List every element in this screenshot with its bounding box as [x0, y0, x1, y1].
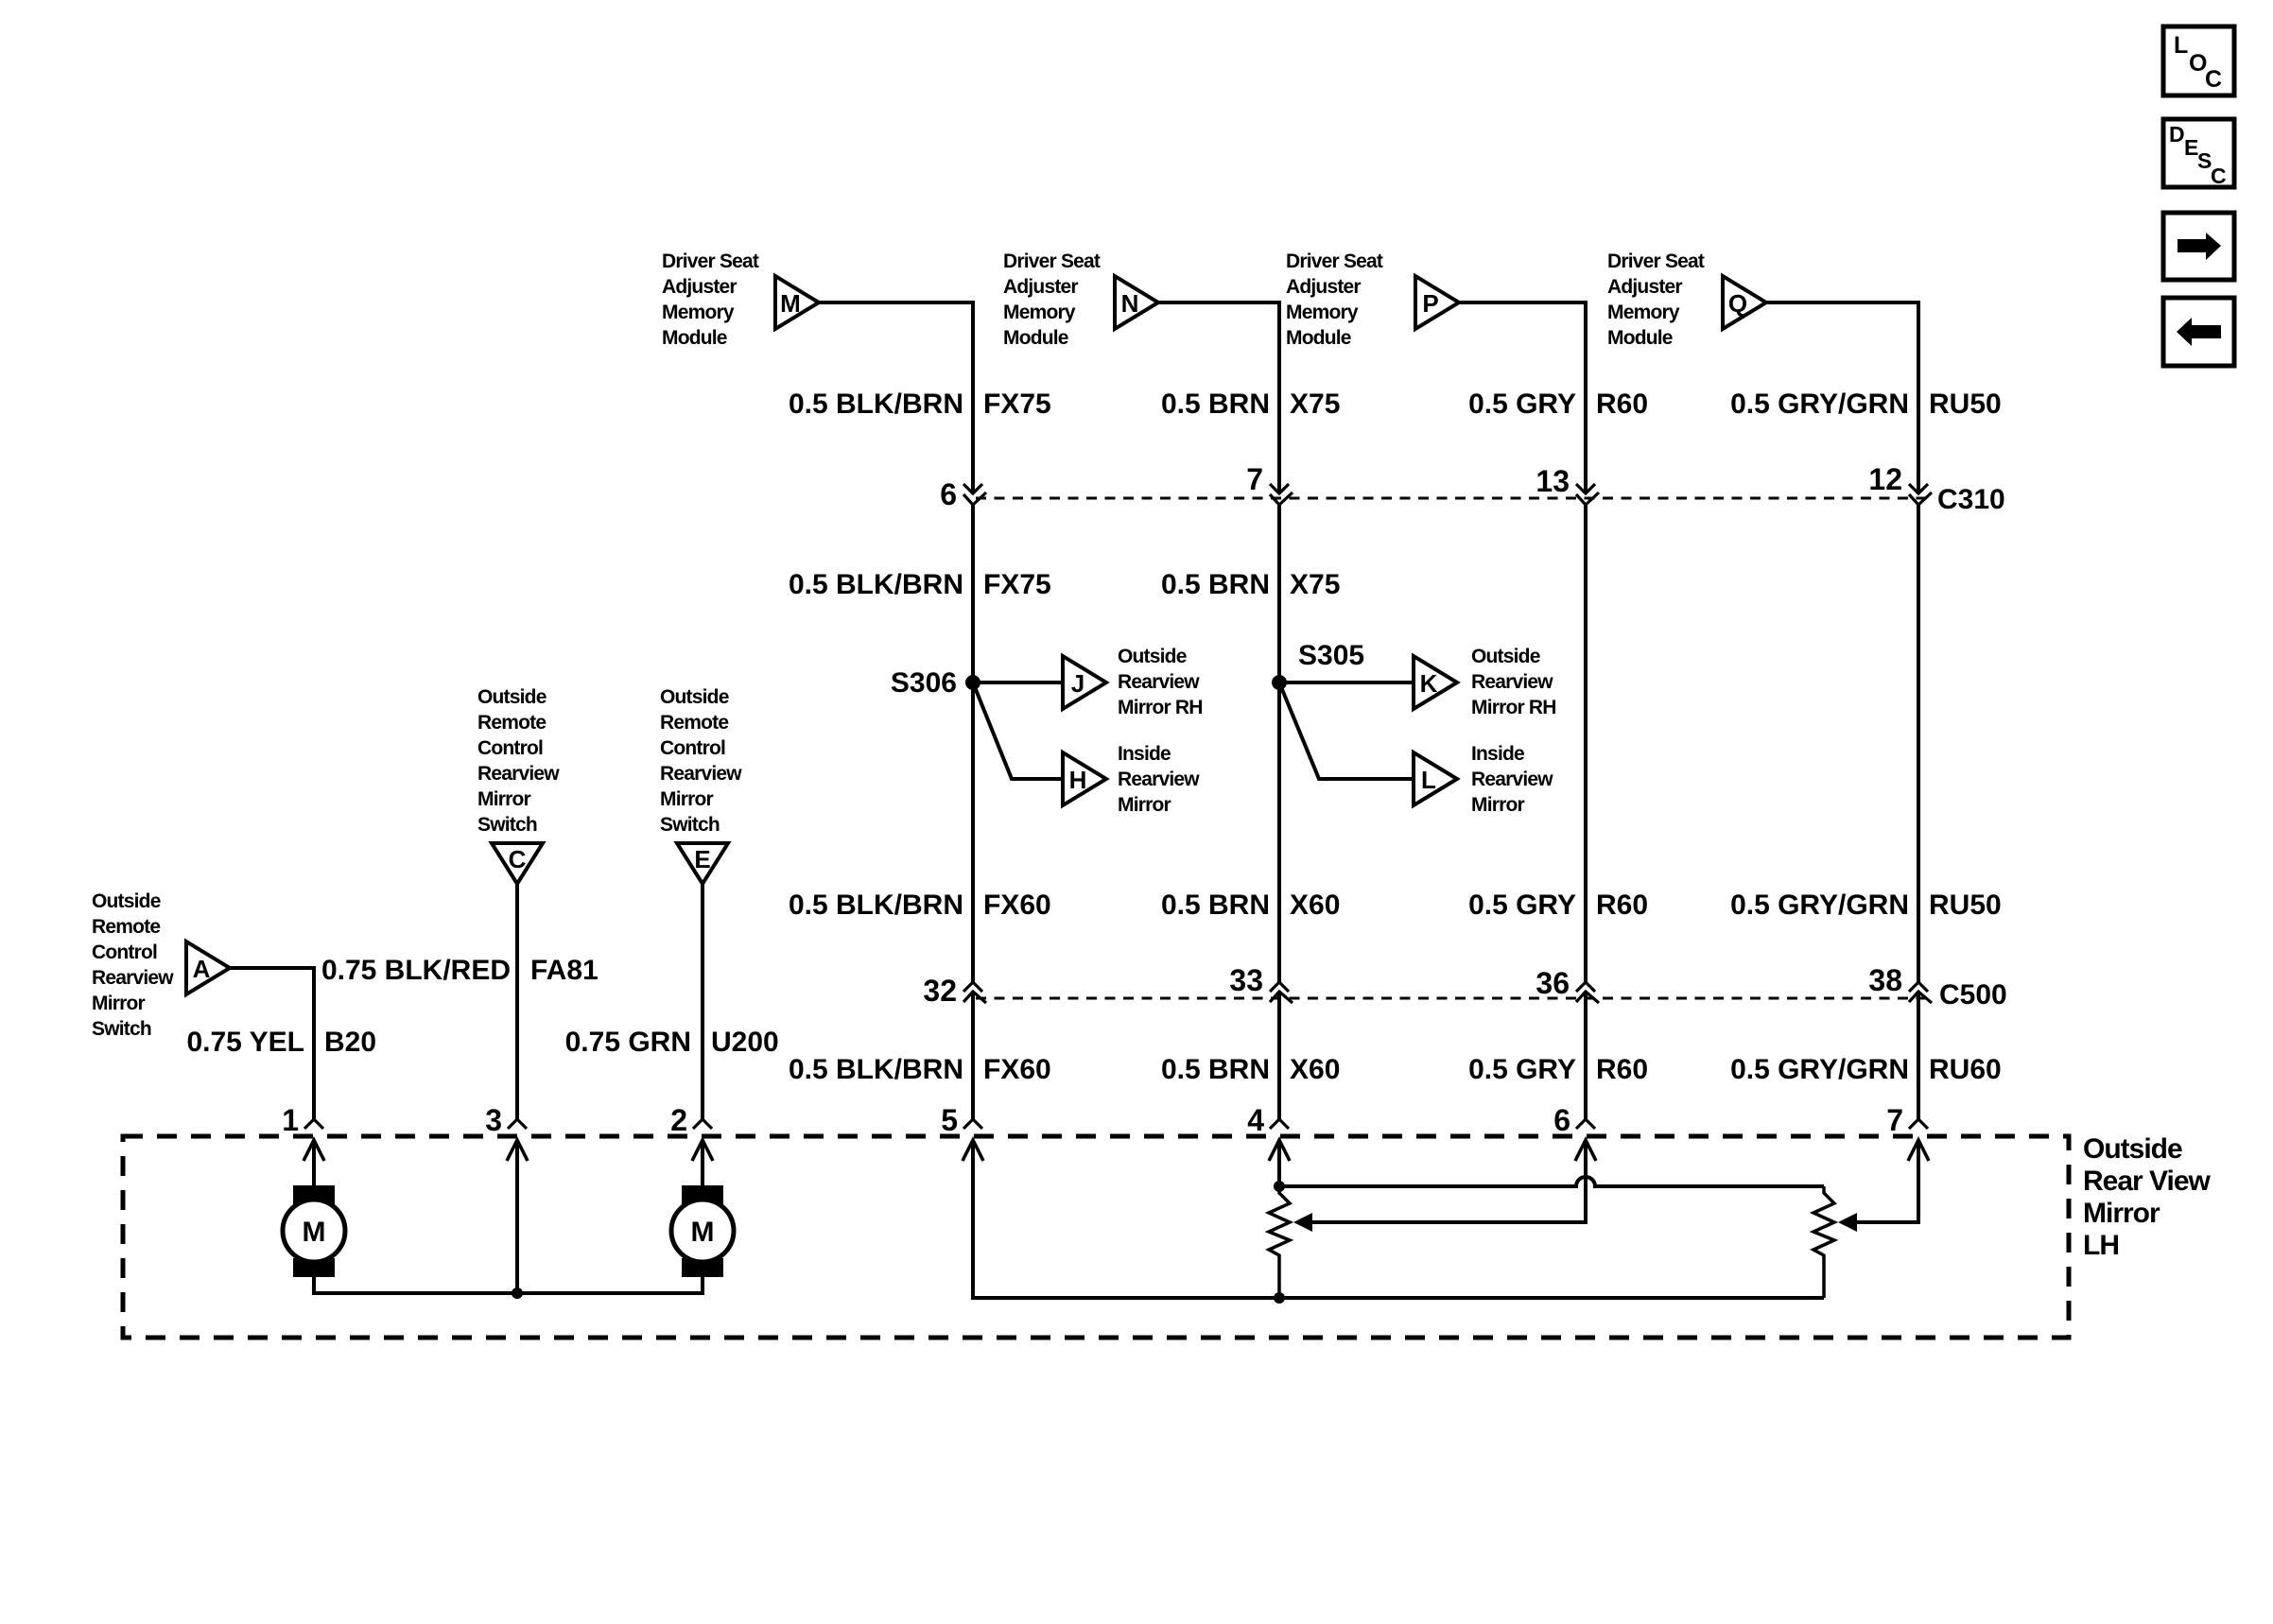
svg-text:P: P	[1422, 289, 1438, 318]
svg-text:13: 13	[1536, 464, 1570, 498]
svg-text:C: C	[2211, 164, 2227, 188]
svg-text:R60: R60	[1596, 389, 1648, 420]
wire R60 C500 to pin6	[1584, 992, 1588, 1119]
junction node pot R1 top	[1274, 1181, 1285, 1192]
svg-text:H: H	[1069, 766, 1087, 794]
svg-text:InsideRearviewMirror: InsideRearviewMirror	[1118, 743, 1200, 816]
svg-text:6: 6	[1553, 1103, 1570, 1137]
connector triangle H	[1063, 752, 1106, 805]
wire pot R1 top to pot R2 top (hop over pin6 wire)	[1279, 1177, 1824, 1186]
wire P to column R60	[1459, 302, 1586, 492]
svg-text:4: 4	[1247, 1103, 1264, 1137]
wire E to pin2	[701, 884, 704, 1119]
wire pin4 to pot R1 top	[1277, 1140, 1281, 1186]
svg-text:M: M	[691, 1217, 715, 1248]
connector triangle J	[1063, 656, 1106, 709]
svg-text:0.5 BLK/BRN: 0.5 BLK/BRN	[789, 1054, 963, 1085]
svg-text:OutsideRemoteControlRearviewMi: OutsideRemoteControlRearviewMirrorSwitch	[92, 890, 174, 1040]
wire S305 to L	[1279, 682, 1414, 779]
svg-text:0.5 BRN: 0.5 BRN	[1161, 890, 1270, 921]
svg-text:0.5 BLK/BRN: 0.5 BLK/BRN	[789, 890, 963, 921]
svg-text:B20: B20	[324, 1027, 376, 1058]
pin 7 chevron and arrow at x=2029	[1909, 1119, 1928, 1129]
pin 1 chevron and arrow at x=332	[304, 1119, 323, 1129]
svg-text:C: C	[2205, 66, 2222, 93]
svg-text:R60: R60	[1596, 890, 1648, 921]
svg-text:0.5 GRY/GRN: 0.5 GRY/GRN	[1730, 890, 1909, 921]
svg-text:S306: S306	[891, 667, 957, 699]
svg-text:0.5 BRN: 0.5 BRN	[1161, 569, 1270, 600]
svg-text:U200: U200	[711, 1027, 779, 1058]
connector triangle E	[677, 843, 728, 884]
svg-text:R60: R60	[1596, 1054, 1648, 1085]
svg-text:7: 7	[1246, 462, 1263, 496]
svg-text:X60: X60	[1290, 1054, 1340, 1085]
svg-text:0.5 GRY/GRN: 0.5 GRY/GRN	[1730, 1054, 1909, 1085]
wire C to pin3	[515, 884, 519, 1119]
svg-text:X75: X75	[1290, 569, 1340, 600]
svg-text:0.75 GRN: 0.75 GRN	[565, 1027, 691, 1058]
svg-text:FX75: FX75	[983, 569, 1051, 600]
connector triangle C	[492, 843, 543, 884]
svg-text:0.5 BLK/BRN: 0.5 BLK/BRN	[789, 389, 963, 420]
wire motor M1 to junction	[314, 1277, 517, 1293]
potentiometer R2	[1813, 1186, 1834, 1298]
C310 pin 12	[1909, 484, 1928, 493]
connector triangle N	[1115, 276, 1158, 329]
left-arrow nav box	[2163, 298, 2234, 366]
svg-text:0.75 BLK/RED: 0.75 BLK/RED	[321, 955, 511, 986]
potentiometer R1	[1269, 1186, 1290, 1298]
junction node pot R1 bottom	[1274, 1292, 1285, 1304]
C310 pin 13	[1576, 484, 1595, 493]
wire X60 S305 to C500	[1277, 682, 1281, 982]
svg-text:6: 6	[940, 477, 957, 511]
svg-text:InsideRearviewMirror: InsideRearviewMirror	[1471, 743, 1553, 816]
svg-text:RU50: RU50	[1929, 890, 2002, 921]
svg-text:RU50: RU50	[1929, 389, 2002, 420]
svg-text:0.5 GRY: 0.5 GRY	[1468, 1054, 1576, 1085]
wire S306 to H	[973, 682, 1063, 779]
svg-text:5: 5	[941, 1103, 958, 1137]
svg-text:0.5 BLK/BRN: 0.5 BLK/BRN	[789, 569, 963, 600]
svg-text:FX60: FX60	[983, 890, 1051, 921]
motor M2	[682, 1185, 723, 1204]
svg-text:Driver SeatAdjusterMemoryModul: Driver SeatAdjusterMemoryModule	[1286, 251, 1383, 349]
svg-text:A: A	[193, 955, 211, 983]
wire RU50 C310 to C500	[1917, 505, 1920, 982]
connector triangle K	[1414, 656, 1457, 709]
wire Q to column RU50	[1766, 302, 1918, 492]
wire pin1 to motor M1	[312, 1140, 316, 1187]
svg-text:C: C	[509, 845, 527, 873]
wire A to pin1	[230, 968, 314, 1119]
wire FX75 C310 to S306	[971, 505, 975, 682]
pin 2 chevron and arrow at x=743	[693, 1119, 712, 1129]
svg-text:OutsideRemoteControlRearviewMi: OutsideRemoteControlRearviewMirrorSwitch	[660, 686, 742, 836]
wire FX60 C500 to pin5	[971, 992, 975, 1119]
svg-text:OutsideRemoteControlRearviewMi: OutsideRemoteControlRearviewMirrorSwitch	[477, 686, 560, 836]
svg-text:OutsideRearviewMirror RH: OutsideRearviewMirror RH	[1118, 646, 1203, 718]
svg-text:RU60: RU60	[1929, 1054, 2002, 1085]
svg-text:38: 38	[1868, 963, 1902, 997]
R2 wiper arrowhead	[1838, 1213, 1857, 1232]
svg-text:OutsideRearviewMirror RH: OutsideRearviewMirror RH	[1471, 646, 1556, 718]
svg-text:0.5 GRY: 0.5 GRY	[1468, 890, 1576, 921]
svg-text:0.5 BRN: 0.5 BRN	[1161, 389, 1270, 420]
svg-text:E: E	[694, 845, 710, 873]
wire S305 to K	[1279, 681, 1414, 684]
svg-text:FX75: FX75	[983, 389, 1051, 420]
wire pin7 to R2 wiper	[1855, 1140, 1918, 1222]
svg-text:32: 32	[923, 974, 957, 1008]
C500 pin 36	[1576, 982, 1595, 992]
DESC nav box	[2163, 119, 2234, 188]
svg-text:K: K	[1420, 669, 1438, 698]
C500 pin 32	[963, 982, 982, 992]
svg-text:7: 7	[1886, 1103, 1903, 1137]
C500 pin 38	[1909, 982, 1928, 992]
svg-text:C310: C310	[1937, 484, 2005, 515]
svg-text:2: 2	[670, 1103, 687, 1137]
svg-text:12: 12	[1868, 462, 1902, 496]
svg-text:0.5 GRY: 0.5 GRY	[1468, 389, 1576, 420]
svg-text:M: M	[303, 1217, 326, 1248]
svg-text:D: D	[2169, 122, 2185, 147]
svg-text:L: L	[1421, 766, 1436, 794]
wire RU60 C500 to pin7	[1917, 992, 1920, 1119]
svg-text:N: N	[1121, 289, 1139, 318]
wire motor M2 to junction	[517, 1277, 703, 1293]
svg-text:S305: S305	[1298, 640, 1364, 671]
svg-text:FX60: FX60	[983, 1054, 1051, 1085]
svg-text:36: 36	[1536, 966, 1570, 1000]
pin 3 chevron and arrow at x=547	[508, 1119, 527, 1129]
svg-text:X60: X60	[1290, 890, 1340, 921]
wire pin6 to R1 wiper	[1310, 1140, 1586, 1222]
svg-text:Q: Q	[1728, 289, 1747, 318]
svg-text:Driver SeatAdjusterMemoryModul: Driver SeatAdjusterMemoryModule	[1607, 251, 1705, 349]
pin 4 chevron and arrow at x=1353	[1270, 1119, 1289, 1129]
connector C310 dashed line	[976, 497, 1929, 500]
wire M to column FX75	[819, 302, 973, 492]
connector triangle L	[1414, 752, 1457, 805]
wire pin5 to pot bottoms	[973, 1140, 1824, 1298]
svg-text:M: M	[780, 289, 801, 318]
wire X75 C310 to S305	[1277, 505, 1281, 682]
svg-text:Driver SeatAdjusterMemoryModul: Driver SeatAdjusterMemoryModule	[662, 251, 759, 349]
svg-text:3: 3	[485, 1103, 502, 1137]
svg-text:33: 33	[1229, 963, 1263, 997]
svg-text:L: L	[2174, 32, 2188, 59]
R1 wiper arrowhead	[1293, 1213, 1312, 1232]
svg-text:C500: C500	[1939, 979, 2007, 1011]
LOC nav box	[2163, 26, 2234, 95]
svg-text:J: J	[1071, 669, 1084, 698]
wire S306 to J	[973, 681, 1063, 684]
wire pin3 to junction	[515, 1140, 519, 1293]
C500 pin 33	[1270, 982, 1289, 992]
svg-text:OutsideRear ViewMirrorLH: OutsideRear ViewMirrorLH	[2083, 1133, 2212, 1261]
junction node motors	[512, 1287, 523, 1299]
wire N to column X75	[1158, 302, 1279, 492]
svg-text:0.5 BRN: 0.5 BRN	[1161, 1054, 1270, 1085]
wire pin2 to motor M2	[701, 1140, 704, 1187]
wire FX60 S306 to C500	[971, 682, 975, 982]
svg-text:X75: X75	[1290, 389, 1340, 420]
motor M1	[293, 1185, 335, 1204]
wire R60 C310 to C500	[1584, 505, 1588, 982]
wire X60 C500 to pin4	[1277, 992, 1281, 1119]
svg-text:1: 1	[282, 1103, 299, 1137]
connector triangle P	[1415, 276, 1459, 329]
connector C500 dashed line	[976, 997, 1929, 1000]
pin 5 chevron and arrow at x=1029	[963, 1119, 982, 1129]
svg-text:Driver SeatAdjusterMemoryModul: Driver SeatAdjusterMemoryModule	[1003, 251, 1101, 349]
svg-text:FA81: FA81	[530, 955, 599, 986]
splice S306	[965, 675, 980, 690]
connector triangle Q	[1723, 276, 1766, 329]
C310 pin 6	[963, 484, 982, 493]
component box Outside Rear View Mirror LH (dashed)	[123, 1136, 2069, 1338]
connector triangle A	[186, 942, 230, 994]
splice S305	[1272, 675, 1287, 690]
pin 6 chevron and arrow at x=1677	[1576, 1119, 1595, 1129]
connector triangle M	[775, 276, 819, 329]
svg-text:0.75 YEL: 0.75 YEL	[186, 1027, 304, 1058]
svg-text:0.5 GRY/GRN: 0.5 GRY/GRN	[1730, 389, 1909, 420]
C310 pin 7	[1270, 484, 1289, 493]
right-arrow nav box	[2163, 213, 2234, 280]
